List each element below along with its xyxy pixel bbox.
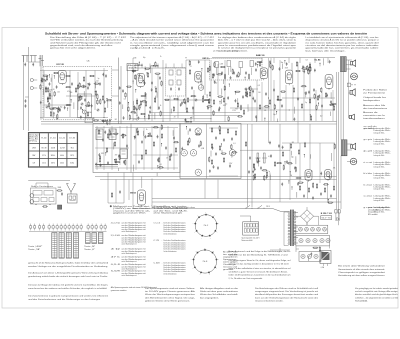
- phono wire: [240, 149, 290, 151]
- svg-text:98,1: 98,1: [71, 147, 74, 149]
- svg-text:transformadores: transformadores: [363, 117, 385, 120]
- capacitor: [123, 117, 125, 119]
- svg-text:kann aus der Verdrahtungsskizz: kann aus der Verdrahtungsskizze der Rück…: [255, 296, 318, 299]
- resistor: [302, 86, 305, 87]
- svg-text:conexión con la: conexión con la: [363, 115, 385, 117]
- junction: [246, 89, 247, 90]
- capacitor: [104, 101, 106, 103]
- svg-text:EM 84: EM 84: [186, 121, 193, 124]
- dial lamp: [195, 128, 202, 135]
- wire: [187, 131, 189, 135]
- capacitor: [181, 147, 183, 149]
- resistor: [50, 112, 51, 115]
- resistor: [141, 156, 142, 159]
- svg-text:bar angegeben.: bar angegeben.: [200, 296, 220, 299]
- capacitor: [134, 136, 136, 138]
- resistor: [196, 134, 199, 135]
- svg-text:30p: 30p: [291, 157, 294, 159]
- resistor: [258, 61, 261, 62]
- wire: [237, 98, 239, 104]
- detector AF components: [249, 92, 250, 95]
- wire: [95, 81, 97, 88]
- resistor: [321, 88, 322, 91]
- transformer primary winding: [288, 212, 290, 214]
- junction: [207, 94, 208, 95]
- capacitor: [145, 135, 147, 137]
- capacitor: [83, 85, 85, 87]
- junction: [304, 154, 305, 155]
- drop wires below AM box: [107, 173, 109, 204]
- resistor: [314, 95, 315, 98]
- resistor: [82, 86, 85, 87]
- capacitor: [303, 70, 305, 72]
- wire: [155, 96, 157, 103]
- wire: [56, 115, 58, 120]
- svg-text:wert nur in das wichtig werden: wert nur in das wichtig werden in besond…: [229, 263, 290, 266]
- junction: [161, 143, 162, 144]
- wire: [330, 92, 332, 99]
- external antenna jacks: [30, 194, 34, 198]
- heater row box 1: [296, 225, 328, 233]
- svg-text:garantizado de las corrientes: garantizado de las corrientes ya montado…: [306, 47, 380, 50]
- wire: [331, 153, 333, 161]
- contact row rail: [29, 231, 107, 233]
- capacitor: [318, 95, 320, 97]
- capacitor: [281, 183, 283, 185]
- FM tuner dashed enclosure: [43, 66, 112, 120]
- junction: [81, 96, 82, 97]
- svg-text:und den Zwischenkreisen und de: und den Zwischenkreisen und der Skalenze…: [28, 298, 100, 301]
- junction: [148, 133, 149, 134]
- svg-text:517–186: 517–186: [69, 138, 75, 140]
- resistor: [189, 139, 190, 142]
- capacitor: [230, 76, 232, 78]
- svg-text:30: 30: [53, 89, 55, 91]
- svg-text:100: 100: [258, 92, 261, 94]
- svg-text:gemacht of de Netzanschluß ges: gemacht of de Netzanschluß geschaltet, h…: [28, 262, 108, 265]
- svg-text:30p: 30p: [143, 57, 146, 59]
- wire: [143, 131, 145, 136]
- tube EABC80 af triode: [305, 170, 312, 180]
- wire: [269, 175, 271, 180]
- bus wire af 2: [152, 201, 341, 203]
- junction: [221, 143, 222, 144]
- wire: [83, 91, 85, 97]
- antenna input terminals: [23, 56, 25, 131]
- resistor: [40, 85, 41, 88]
- svg-text:2V: 2V: [155, 87, 157, 89]
- af vertical pair: [247, 150, 249, 207]
- capacitor: [59, 108, 61, 110]
- resistor: [312, 184, 313, 187]
- wire: [84, 113, 86, 118]
- svg-text:2k2: 2k2: [96, 81, 99, 83]
- capacitor: [209, 170, 211, 172]
- resistor: [330, 104, 333, 105]
- svg-text:6,3: 6,3: [136, 115, 138, 117]
- junction: [49, 74, 50, 75]
- dipole antenna symbol: [67, 184, 72, 193]
- capacitor: [184, 101, 186, 103]
- EM84 indicator sub-box divider: [130, 124, 132, 173]
- svg-text:Die Einstellung der Filter A (: Die Einstellung der Filter A (C 64) – T …: [50, 36, 127, 39]
- resistor: [49, 103, 50, 106]
- svg-text:Le réglage des bobines des con: Le réglage des bobines des condensateurs…: [218, 36, 296, 39]
- resistor: [159, 167, 162, 168]
- svg-text:2V: 2V: [174, 117, 176, 119]
- wire: [109, 121, 111, 125]
- wire: [330, 112, 332, 116]
- svg-text:220 V: 220 V: [266, 206, 270, 208]
- svg-text:Schaltbild.: Schaltbild.: [355, 300, 369, 303]
- svg-text:318,2: 318,2: [70, 163, 74, 165]
- resistor: [299, 182, 302, 183]
- resistor: [57, 109, 58, 112]
- capacitor: [320, 172, 322, 174]
- heater row box 2: [296, 236, 330, 246]
- resistor: [237, 103, 238, 106]
- svg-text:Bei einem alten Wicklung verbu: Bei einem alten Wicklung verbundener: [338, 265, 386, 268]
- resistor: [278, 99, 281, 100]
- resistor: [232, 70, 233, 73]
- wire: [221, 89, 223, 95]
- wire: [309, 69, 311, 74]
- svg-text:Output leads for: Output leads for: [363, 96, 387, 99]
- resistor: [42, 80, 45, 81]
- capacitor: [326, 94, 328, 96]
- wire: [296, 192, 298, 198]
- svg-text:adjusted chart.: adjusted chart.: [130, 47, 166, 50]
- resistor: [139, 106, 140, 109]
- svg-text:Die Zwischenkreise in gedruckt: Die Zwischenkreise in gedruckt nachgesch…: [28, 294, 108, 297]
- resistor: [334, 145, 335, 148]
- capacitor: [91, 104, 93, 106]
- junction: [284, 60, 285, 61]
- capacitor: [308, 91, 310, 93]
- resistor: [310, 67, 311, 70]
- wire: [156, 92, 158, 98]
- svg-text:1k: 1k: [160, 56, 162, 58]
- resistor: [148, 135, 151, 136]
- small component cluster above detector: [174, 98, 177, 99]
- resistor: [132, 112, 135, 113]
- wire: [145, 94, 147, 99]
- svg-text:5p: 5p: [305, 102, 307, 104]
- svg-text:6,3: 6,3: [233, 143, 235, 145]
- capacitor: [47, 97, 49, 99]
- resistor: [209, 158, 210, 161]
- junction: [201, 68, 202, 69]
- svg-text:Bornes des fils: Bornes des fils: [363, 104, 385, 107]
- resistor: [265, 106, 268, 107]
- resistor: [304, 143, 305, 146]
- wire: [282, 64, 284, 69]
- capacitor: [189, 128, 191, 130]
- junction: [95, 91, 96, 92]
- ferrite antenna assembly box: [31, 188, 57, 204]
- socket TA: [181, 150, 187, 156]
- svg-text:100 M: 100 M: [51, 147, 56, 149]
- svg-text:2V: 2V: [166, 158, 168, 160]
- capacitor: [157, 135, 159, 137]
- resistor: [264, 176, 265, 179]
- svg-text:circuitos no del abastecimient: circuitos no del abastecimiento por los …: [306, 44, 379, 47]
- AM IF transformer can 2: [109, 129, 116, 140]
- wire: [254, 177, 256, 180]
- wire: [192, 107, 194, 115]
- tuner components: [41, 78, 42, 81]
- resistor: [288, 163, 291, 164]
- svg-text:47 k: 47 k: [111, 257, 121, 259]
- resistor: [107, 134, 108, 137]
- junction: [229, 83, 230, 84]
- resistor: [114, 133, 117, 134]
- svg-text:5,5–8 kΩ: 5,5–8 kΩ: [111, 235, 121, 237]
- svg-text:30p: 30p: [60, 107, 63, 109]
- junction: [146, 72, 147, 73]
- wire: [230, 67, 232, 72]
- svg-text:EM 84: EM 84: [130, 192, 136, 195]
- resistor: [222, 153, 225, 154]
- resistor: [309, 67, 310, 70]
- AM tuner box: [93, 124, 180, 173]
- wire: [69, 91, 71, 97]
- capacitor: [151, 88, 153, 90]
- svg-text:mehr in in den selbstfarbe of: mehr in in den selbstfarbe of einer nur …: [229, 267, 292, 270]
- wire: [132, 165, 134, 172]
- resistor: [161, 82, 162, 85]
- wire: [170, 109, 172, 114]
- resistor: [221, 66, 224, 67]
- capacitor: [213, 165, 215, 167]
- wire: [50, 78, 52, 82]
- capacitor: [279, 68, 281, 70]
- capacitor: [329, 176, 331, 178]
- svg-text:30p: 30p: [281, 62, 284, 64]
- svg-text:47k: 47k: [333, 168, 336, 170]
- svg-text:5p: 5p: [98, 78, 100, 80]
- capacitor: [294, 118, 296, 120]
- speaker 2 round: [351, 73, 358, 80]
- bus wire af 1: [152, 198, 337, 200]
- svg-text:geglichen und am Wert.: geglichen und am Wert.: [113, 211, 147, 214]
- svg-text:460 k: 460 k: [60, 155, 64, 157]
- capacitor: [252, 90, 254, 92]
- svg-text:4,5–5,7 kΩ: 4,5–5,7 kΩ: [111, 223, 121, 225]
- resistor: [332, 103, 335, 104]
- svg-text:2, 2a, 2b aufbau um Cent ausge: 2, 2a, 2b aufbau um Cent ausgewendet.: [229, 277, 264, 280]
- tuner shield left edge: [40, 55, 42, 120]
- transformer secondary winding: [294, 212, 296, 214]
- svg-text:Gl 2 • 70: Gl 2 • 70: [322, 218, 331, 220]
- svg-text:0,3: 0,3: [268, 156, 270, 158]
- svg-text:70V: 70V: [115, 155, 118, 157]
- junction: [134, 136, 135, 137]
- IF components: [147, 73, 148, 76]
- wire: [308, 256, 310, 262]
- junction: [185, 119, 186, 120]
- junction: [319, 260, 320, 261]
- svg-text:Die Heizleitungen der Röhren s: Die Heizleitungen der Röhren sind im Sch…: [255, 287, 319, 290]
- resistor: [119, 156, 120, 159]
- junction: [157, 165, 158, 166]
- tube phase splitter: [325, 170, 332, 180]
- capacitor: [248, 87, 250, 89]
- capacitor: [282, 146, 284, 148]
- resistor: [140, 101, 141, 104]
- tube EM84 indicator: [138, 190, 146, 205]
- svg-text:The adjustment of the trimmer: The adjustment of the trimmer capacitors…: [130, 36, 215, 39]
- capacitor: [64, 106, 66, 108]
- svg-text:10,7 M: 10,7 M: [60, 147, 65, 149]
- junction: [93, 117, 94, 118]
- resistor: [67, 86, 70, 87]
- capacitor: [212, 147, 214, 149]
- wire: [117, 168, 119, 171]
- capacitor: [99, 156, 101, 158]
- resistor: [109, 131, 110, 134]
- assembly lower parts: [43, 206, 46, 207]
- svg-text:100: 100: [70, 92, 73, 94]
- svg-text:C 5–C 6 →: C 5–C 6 →: [154, 223, 163, 225]
- tube socket diagram B: [193, 250, 216, 273]
- svg-text:– A (C 412) should not be vari: – A (C 412) should not be varied since o…: [130, 39, 215, 42]
- svg-text:bleichen ersichtlich wird die: bleichen ersichtlich wird die gleichfärb…: [355, 293, 398, 296]
- wire: [201, 81, 203, 89]
- svg-text:170V: 170V: [232, 110, 235, 112]
- capacitor: [286, 63, 288, 65]
- volume potentiometers: [257, 153, 259, 163]
- junction: [71, 99, 72, 100]
- resistor: [122, 135, 125, 136]
- svg-text:87,5 M: 87,5 M: [42, 147, 47, 149]
- svg-text:garantie pour les circuits osc: garantie pour les circuits oscillants, e…: [218, 41, 296, 44]
- svg-text:100: 100: [89, 112, 92, 114]
- wire: [293, 107, 295, 114]
- wire: [295, 156, 297, 164]
- svg-text:Bornes de: Bornes de: [363, 111, 377, 114]
- junction: [310, 114, 311, 115]
- assembly top wire: [28, 180, 70, 182]
- resistor: [200, 142, 201, 145]
- svg-text:5k: 5k: [146, 129, 148, 131]
- svg-text:B 250 C 100: B 250 C 100: [321, 213, 332, 215]
- svg-text:ter 10 kΩ/V gegen Chassis geme: ter 10 kΩ/V gegen Chassis gemessen. Alle: [145, 290, 195, 293]
- capacitor: [185, 119, 187, 121]
- capacitor: [255, 63, 257, 65]
- capacitor: [80, 116, 82, 118]
- capacitor: [57, 107, 59, 109]
- resistor: [205, 99, 208, 100]
- junction: [328, 199, 329, 200]
- wire: [107, 101, 109, 108]
- capacitor: [170, 154, 172, 156]
- svg-text:Werte der Wechselspannungen en: Werte der Wechselspannungen entsprechen: [145, 293, 195, 296]
- oscillator parts: [80, 96, 81, 99]
- resistor: [314, 247, 317, 248]
- resistor: [146, 68, 149, 69]
- svg-text:gemessen worden.: gemessen worden.: [111, 289, 128, 292]
- capacitor: [314, 69, 316, 71]
- wire: [221, 150, 223, 154]
- AM IF transformer can 3: [120, 149, 128, 159]
- wire: [310, 154, 312, 158]
- svg-text:30p: 30p: [321, 252, 324, 254]
- svg-text:mit Hilfe verbunden werden, da: mit Hilfe verbunden werden, da nach der …: [50, 39, 123, 42]
- junction: [264, 118, 265, 119]
- capacitor: [254, 168, 256, 170]
- resistor: [192, 95, 195, 96]
- resistor: [296, 70, 299, 71]
- junction: [54, 75, 55, 76]
- svg-text:0,8: 0,8: [258, 85, 260, 87]
- svg-text:Chassispunkt zu gültigen ausge: Chassispunkt zu gültigen ausgeändert: [338, 271, 386, 274]
- svg-text:Vor geringfügig nur frei arbei: Vor geringfügig nur frei arbeits wendet …: [355, 287, 399, 290]
- resistor: [319, 247, 320, 250]
- svg-text:schließen – die abgestimmten v: schließen – die abgestimmten verstellen …: [355, 296, 398, 299]
- tube EBF89: [195, 72, 202, 82]
- af takeoff jack: [198, 85, 204, 91]
- capacitor: [269, 141, 271, 143]
- svg-text:EL 84: EL 84: [315, 59, 322, 62]
- capacitor: [198, 61, 200, 63]
- jack area parts: [187, 141, 188, 144]
- resistor: [238, 73, 239, 76]
- tube EABC80 triode: [260, 68, 267, 79]
- resistor: [142, 95, 145, 96]
- resistor: [218, 74, 221, 75]
- svg-text:Schaltbild mit Strom- und Span: Schaltbild mit Strom- und Spannungswerte…: [45, 31, 368, 35]
- resistor: [174, 142, 177, 143]
- resistor: [209, 92, 210, 95]
- svg-text:den Betriebswerten ohne Signal: den Betriebswerten ohne Signal. Die ange…: [145, 296, 196, 299]
- svg-text:ECC 85: ECC 85: [57, 64, 65, 66]
- svg-text:le service de réalignement au: le service de réalignement au récepteur …: [218, 47, 297, 50]
- capacitor: [245, 88, 247, 90]
- svg-text:dispositivos circuitos A (C 67: dispositivos circuitos A (C 67) no se pu…: [306, 39, 380, 42]
- top bus wire: [131, 67, 186, 69]
- junction: [253, 164, 254, 165]
- capacitor: [310, 253, 312, 255]
- wire: [290, 151, 292, 156]
- resistor: [281, 91, 284, 92]
- resistor: [97, 95, 98, 98]
- svg-text:2V: 2V: [190, 66, 192, 68]
- resistor: [173, 107, 174, 110]
- resistor: [283, 166, 284, 169]
- IF section wiring: [132, 58, 134, 121]
- svg-text:5,15–6,3: 5,15–6,3: [59, 138, 65, 140]
- junction: [144, 116, 145, 117]
- mains switch dark: [58, 205, 62, 209]
- svg-text:den Anschlußpunkten der Fassun: den Anschlußpunkten der Fassungen bezeic…: [255, 293, 318, 296]
- electrolytic can: [335, 210, 337, 213]
- capacitor: [252, 170, 254, 172]
- detector AF wiring verticals: [251, 88, 253, 121]
- svg-text:ZF-Freq.: ZF-Freq.: [29, 141, 38, 143]
- heater row box 3: [299, 252, 321, 262]
- capacitor: [266, 176, 268, 178]
- resistor: [213, 111, 214, 114]
- wire: [48, 93, 50, 99]
- svg-text:87–100: 87–100: [41, 138, 46, 140]
- junction: [276, 111, 277, 112]
- coupling lines right of tuner: [118, 58, 120, 125]
- capacitor: [145, 93, 147, 95]
- resistor: [154, 127, 157, 128]
- resistor: [57, 115, 58, 118]
- svg-text:151 k: 151 k: [42, 163, 46, 165]
